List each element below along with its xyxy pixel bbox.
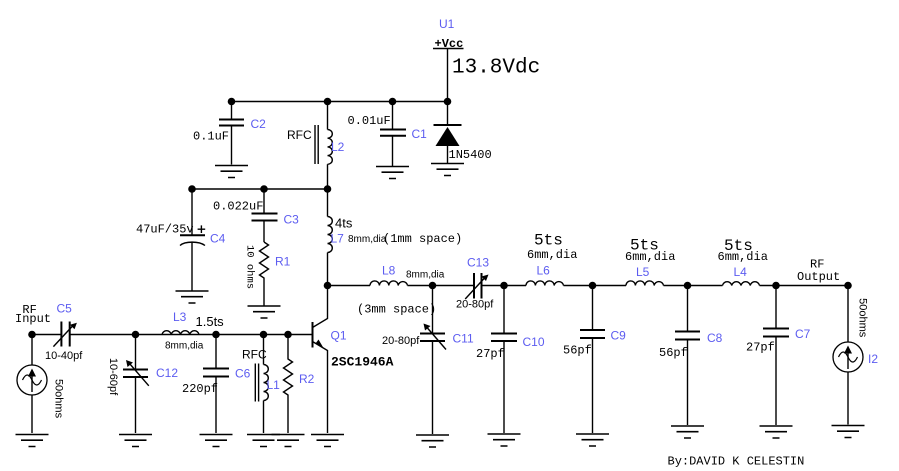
svg-text:27pf: 27pf [746,341,775,355]
ground (C1) [376,167,409,179]
capacitor C1 [348,102,428,167]
wire input rail [32,334,288,336]
svg-text:C12: C12 [156,366,178,380]
capacitor C9 56pf [563,286,626,434]
svg-text:I2: I2 [868,352,878,366]
svg-text:5ts: 5ts [534,232,563,250]
svg-text:6mm,dia: 6mm,dia [718,250,768,264]
ground (C7) [760,426,793,438]
svg-text:L5: L5 [636,265,650,279]
svg-text:13.8Vdc: 13.8Vdc [452,57,540,80]
svg-text:1.5ts: 1.5ts [196,314,225,329]
svg-text:0.01uF: 0.01uF [348,114,391,128]
capacitor C11 variable 20-80pf [382,286,474,435]
capacitor C2 [193,102,266,165]
capacitor C6 220pf [182,335,251,434]
wire top rail [232,101,448,103]
ground (R2) [272,435,305,447]
inductor L7 4ts [328,189,463,286]
svg-text:0.1uF: 0.1uF [193,130,229,144]
ground (C2) [215,166,248,178]
svg-text:L2: L2 [331,140,345,154]
svg-text:6mm,dia: 6mm,dia [625,250,675,264]
capacitor C7 27pf [746,286,811,426]
svg-text:C10: C10 [523,335,545,349]
ground (L1) [247,435,280,447]
svg-text:(1mm space): (1mm space) [383,232,462,246]
node RF Input [15,303,51,326]
svg-text:(3mm space): (3mm space) [357,303,436,317]
current source I1 50ohms [17,335,65,434]
resistor R2 [284,335,315,434]
inductor L4 5ts [718,237,768,286]
capacitor C8 56pf [659,286,723,426]
svg-text:4ts: 4ts [335,216,353,231]
inductor L5 5ts [625,237,675,286]
svg-text:27pf: 27pf [476,347,505,361]
svg-text:10 ohms: 10 ohms [244,245,256,289]
svg-text:+Vcc: +Vcc [435,37,464,51]
svg-text:C11: C11 [453,332,474,346]
capacitor C10 27pf [476,286,545,434]
svg-text:L8: L8 [382,264,396,278]
capacitor C5 variable 10-40pf [45,302,83,363]
svg-text:6mm,dia: 6mm,dia [527,248,577,262]
diode D1 1N5400 [434,102,492,164]
svg-text:C7: C7 [795,327,811,341]
ground (C6) [200,435,233,447]
svg-text:L6: L6 [537,264,551,278]
svg-text:L1: L1 [267,378,281,392]
ground (C12) [119,435,152,447]
svg-text:56pf: 56pf [563,344,592,358]
svg-text:L4: L4 [734,265,748,279]
svg-text:C13: C13 [467,256,489,270]
resistor R1 10 ohms [244,242,291,306]
svg-text:R2: R2 [299,372,315,386]
svg-text:C9: C9 [611,329,627,343]
capacitor C12 variable 10-60pf [107,335,178,434]
svg-text:C5: C5 [57,302,73,316]
svg-text:Output: Output [797,270,840,284]
svg-text:RFC: RFC [242,348,267,362]
ground (I2) [832,426,865,438]
inductor L8 [357,264,445,317]
svg-text:220pf: 220pf [182,382,218,396]
svg-text:L7: L7 [331,232,345,246]
svg-text:Input: Input [15,312,51,326]
node U1 +Vcc supply [433,17,464,51]
ground (R1) [248,306,281,318]
svg-text:C6: C6 [235,367,251,381]
svg-text:By:DAVID K CELESTIN: By:DAVID K CELESTIN [668,455,805,469]
svg-text:10-60pf: 10-60pf [107,358,119,396]
svg-text:C3: C3 [284,213,300,227]
inductor L1 RFC [242,335,280,434]
inductor L6 5ts [526,232,577,286]
svg-text:C1: C1 [412,127,428,141]
current source I2 50ohms [833,286,878,425]
ground (C10) [488,434,521,446]
svg-text:20-80pf: 20-80pf [382,335,420,347]
capacitor C3 0.022uF [213,189,299,242]
svg-text:C8: C8 [707,331,723,345]
ground (C9) [576,434,609,446]
svg-text:47uF/35v: 47uF/35v [136,223,194,237]
capacitor C13 variable 20-80pf [456,256,494,311]
svg-text:50ohms: 50ohms [53,379,65,419]
capacitor C4 electrolytic 47uF/35v [136,189,226,291]
svg-text:8mm,dia: 8mm,dia [165,341,204,352]
svg-text:8mm,dia: 8mm,dia [348,234,387,245]
ground (I1) [16,435,49,447]
svg-text:L3: L3 [173,310,187,324]
svg-text:0.022uF: 0.022uF [213,200,263,214]
inductor L2 RFC [287,102,345,190]
ground (D1) [431,164,464,176]
svg-text:Q1: Q1 [331,329,347,343]
ground (C4) [176,291,209,303]
svg-text:R1: R1 [275,255,291,269]
node RF Output [797,258,840,285]
svg-text:U1: U1 [439,17,455,31]
svg-text:10-40pf: 10-40pf [45,350,83,362]
wire Vcc stub [447,49,449,102]
svg-text:1N5400: 1N5400 [449,148,492,162]
wire second rail [192,188,328,190]
svg-text:RFC: RFC [287,128,312,142]
svg-text:C4: C4 [210,232,226,246]
transistor Q1 2SC1946A [288,286,394,434]
wire output rail [328,285,849,287]
svg-text:2SC1946A: 2SC1946A [331,355,394,370]
ground (C11) [416,435,449,447]
svg-text:20-80pf: 20-80pf [456,299,494,311]
svg-text:56pf: 56pf [659,346,688,360]
ground (C8) [671,426,704,438]
svg-text:50ohms: 50ohms [857,298,869,338]
svg-text:C2: C2 [251,117,267,131]
ground (Q1 emitter) [311,435,344,447]
inductor L3 1.5ts [162,310,224,352]
svg-text:8mm,dia: 8mm,dia [406,270,445,281]
